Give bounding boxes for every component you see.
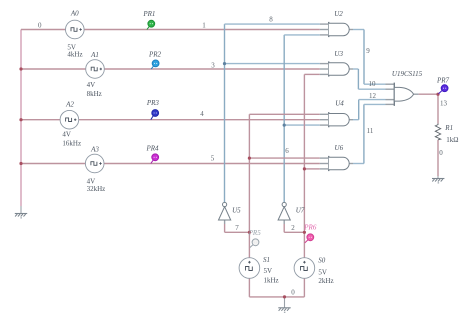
svg-text:8: 8 xyxy=(269,16,273,24)
svg-text:A0: A0 xyxy=(70,10,79,18)
svg-text:10: 10 xyxy=(369,80,377,88)
svg-text:PR5: PR5 xyxy=(248,229,262,237)
svg-text:12: 12 xyxy=(369,92,377,100)
svg-text:5V: 5V xyxy=(318,268,327,276)
svg-text:1kΩ: 1kΩ xyxy=(446,136,458,144)
svg-text:A3: A3 xyxy=(90,145,99,153)
svg-text:4V: 4V xyxy=(87,81,96,89)
svg-text:PR3: PR3 xyxy=(146,99,160,107)
svg-text:4: 4 xyxy=(200,110,204,118)
svg-text:PR4: PR4 xyxy=(145,144,159,152)
svg-text:2kHz: 2kHz xyxy=(318,277,333,285)
svg-text:U4: U4 xyxy=(335,100,344,108)
svg-text:4V: 4V xyxy=(62,130,71,138)
svg-text:0: 0 xyxy=(439,149,443,157)
svg-text:U6: U6 xyxy=(335,144,344,152)
svg-text:11: 11 xyxy=(367,127,374,135)
svg-text:9: 9 xyxy=(366,47,370,55)
svg-text:6: 6 xyxy=(285,147,289,155)
svg-text:2: 2 xyxy=(291,224,295,232)
svg-text:A1: A1 xyxy=(90,51,99,59)
svg-text:R1: R1 xyxy=(444,124,453,132)
svg-text:U19CS115: U19CS115 xyxy=(392,70,423,78)
svg-text:1: 1 xyxy=(202,22,206,30)
svg-text:16kHz: 16kHz xyxy=(62,139,81,147)
svg-text:5: 5 xyxy=(211,155,215,163)
svg-text:PR7: PR7 xyxy=(436,76,450,84)
svg-text:U5: U5 xyxy=(232,206,241,214)
svg-text:7: 7 xyxy=(235,224,239,232)
svg-text:U2: U2 xyxy=(334,10,343,18)
svg-text:3: 3 xyxy=(211,62,215,70)
svg-text:1kHz: 1kHz xyxy=(264,277,279,285)
svg-text:32kHz: 32kHz xyxy=(87,185,106,193)
svg-text:0: 0 xyxy=(291,289,295,297)
svg-text:PR1: PR1 xyxy=(142,10,155,18)
svg-text:PR2: PR2 xyxy=(148,50,162,58)
svg-text:PR6: PR6 xyxy=(303,224,317,232)
svg-text:0: 0 xyxy=(38,22,42,30)
svg-text:U7: U7 xyxy=(296,206,305,214)
svg-text:U3: U3 xyxy=(334,50,343,58)
svg-text:S1: S1 xyxy=(263,256,270,264)
svg-text:13: 13 xyxy=(440,100,448,108)
svg-text:A2: A2 xyxy=(65,100,74,108)
svg-text:8kHz: 8kHz xyxy=(87,90,102,98)
svg-text:S0: S0 xyxy=(318,256,326,264)
svg-text:4kHz: 4kHz xyxy=(67,50,82,58)
svg-text:5V: 5V xyxy=(264,267,273,275)
